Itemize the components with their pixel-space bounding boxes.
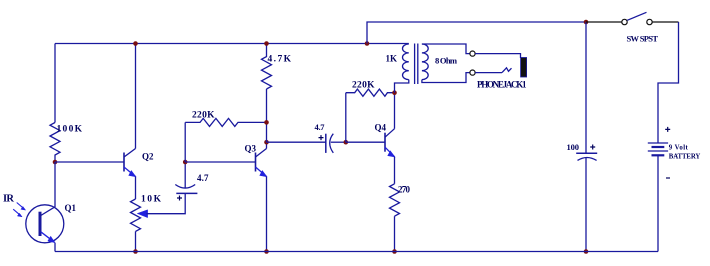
transistor Q2 (124, 149, 136, 177)
wire top line to C3 (585, 22, 587, 153)
transformer T1 core (415, 44, 418, 85)
svg-text:100K: 100K (57, 125, 83, 135)
junction 220K right end (264, 120, 269, 125)
wire jack terminal 1 to plug sleeve (475, 54, 520, 58)
junction Q3 emitter / ground rail (264, 249, 269, 254)
wire switch lead right (black) (652, 21, 678, 23)
wire node C to C2 (267, 141, 326, 143)
resistor R1 100K (50, 123, 60, 163)
wire node B up to 220K left (184, 122, 186, 162)
phonejack J1 plug sleeve (521, 58, 527, 78)
junction C3 / ground rail (584, 249, 589, 254)
junction 10K / ground rail (133, 249, 138, 254)
wire Q2 collector to top rail (135, 44, 137, 149)
node A junction 100K/Q1/Q2-base (53, 160, 58, 165)
label Q2 (142, 152, 154, 162)
potentiometer R2 10K (131, 199, 148, 231)
svg-text:270: 270 (398, 185, 411, 195)
resistor R3 220K (185, 118, 266, 126)
transistor Q1 phototransistor (26, 205, 64, 243)
svg-text:10K: 10K (141, 195, 162, 205)
wire node A to Q2 base (55, 161, 124, 163)
node C junction Q3 collector / C2 / 4.7K (264, 140, 269, 145)
wire C1 top to node B (184, 162, 186, 188)
wire pot wiper to C1 (147, 193, 186, 213)
label 100 (567, 142, 580, 152)
svg-text:4.7: 4.7 (315, 122, 326, 132)
transistor Q3 (256, 149, 267, 177)
label Q1 (65, 203, 77, 213)
IR arrow 2 (13, 209, 22, 217)
label 4.7K (R4) (268, 55, 292, 65)
svg-text:Q4: Q4 (375, 123, 387, 133)
junction Q2 collector / top rail (133, 41, 138, 46)
svg-text:1K: 1K (386, 54, 398, 64)
transformer T1 secondary winding (422, 44, 428, 80)
label IR (3, 194, 14, 205)
wire node C up to 220K right / 4.7K bottom (266, 89, 268, 142)
wire ground rail (55, 251, 658, 253)
battery B1 9 Volt (648, 143, 668, 155)
label 4.7 (C1) (197, 173, 209, 183)
resistor R6 270 (390, 184, 400, 216)
wire battery negative to ground rail (657, 155, 659, 251)
label SW SPST (627, 34, 659, 44)
wire node B to Q3 base (185, 161, 255, 163)
wire Q3 emitter to ground rail (266, 177, 268, 252)
svg-text:220K: 220K (192, 111, 215, 121)
capacitor C2 4.7 (319, 134, 334, 153)
wire node D to Q4 base (346, 141, 385, 143)
battery plus sign (665, 127, 670, 132)
phonejack J1 tip contact (502, 68, 512, 73)
label BATTERY (669, 153, 701, 160)
junction 4.7K / top rail (264, 41, 269, 46)
label 9 Volt (669, 144, 689, 151)
transistor Q4 (385, 129, 395, 157)
capacitor C3 100 (576, 145, 597, 161)
node E junction Q4 collector / 220K / transformer primary (392, 90, 397, 95)
capacitor C1 4.7 (175, 185, 197, 201)
wire node D up to 220K left (345, 93, 347, 143)
wire Q1 emitter to ground rail (54, 243, 56, 252)
wire switch lead left (black) (586, 21, 622, 23)
wire C2 to node D (331, 141, 346, 143)
label 100K (57, 125, 83, 135)
node B junction C1/220K/Q3-base (183, 160, 188, 165)
wire jack terminal 2 to tip contact (475, 72, 502, 74)
transformer T1 primary winding 1K (403, 44, 409, 80)
wire riser and top line to 100uF node (367, 22, 586, 44)
label Q3 (245, 144, 257, 154)
wire switch to battery positive (658, 22, 679, 143)
svg-text:BATTERY: BATTERY (669, 153, 701, 160)
label 4.7 (C2) (315, 122, 326, 132)
svg-text:SW SPST: SW SPST (627, 34, 659, 44)
switch SW1 SPST (622, 12, 652, 24)
svg-text:8 Ohm: 8 Ohm (435, 56, 458, 66)
svg-text:Q1: Q1 (65, 203, 77, 213)
svg-text:4.7: 4.7 (197, 173, 209, 183)
label PHONEJACK1 (477, 80, 527, 90)
wire 10K bottom to ground rail (135, 231, 137, 251)
jack terminal 2 (470, 70, 475, 75)
wire Q2 emitter to 10K pot (135, 177, 137, 200)
svg-text:Q2: Q2 (142, 152, 154, 162)
svg-text:PHONEJACK1: PHONEJACK1 (477, 80, 527, 90)
wire 270 to ground rail (394, 216, 396, 251)
IR arrow 1 (17, 203, 26, 211)
svg-text:100: 100 (567, 142, 580, 152)
wire top rail V+ (55, 43, 409, 45)
wire node E to transformer primary bottom (395, 80, 409, 93)
battery minus sign (666, 177, 670, 179)
wire node A to Q1 collector (54, 162, 56, 207)
svg-text:IR: IR (3, 194, 14, 205)
label 220K (R3) (192, 111, 215, 121)
label 8 Ohm (435, 56, 458, 66)
junction top rail / riser to switch line (365, 41, 370, 46)
resistor R4 4.7K (262, 44, 272, 90)
wire Q3 collector to node C (266, 142, 268, 148)
label 270 (398, 185, 411, 195)
resistor R5 220K (346, 89, 395, 96)
jack terminal 1 (470, 51, 475, 56)
wire C3 bottom to ground rail (585, 158, 587, 252)
wire left column from rail to 100K (54, 44, 56, 123)
svg-text:220K: 220K (352, 81, 375, 91)
svg-text:Q3: Q3 (245, 144, 257, 154)
svg-text:4.7K: 4.7K (268, 55, 292, 65)
label 1K (386, 54, 398, 64)
wire secondary bottom to jack terminal 2 (422, 73, 470, 83)
junction 270 / ground rail (392, 249, 397, 254)
junction 100uF / top line (584, 20, 589, 25)
svg-text:9 Volt: 9 Volt (669, 144, 689, 151)
label Q4 (375, 123, 387, 133)
wire Q4 emitter to 270 (394, 157, 396, 184)
label 10K (141, 195, 162, 205)
wire secondary top to jack terminal 1 (422, 44, 470, 54)
label 220K (R5) (352, 81, 375, 91)
wire Q4 collector to node E (394, 93, 396, 129)
node D junction C2/220K/Q4-base (344, 140, 349, 145)
